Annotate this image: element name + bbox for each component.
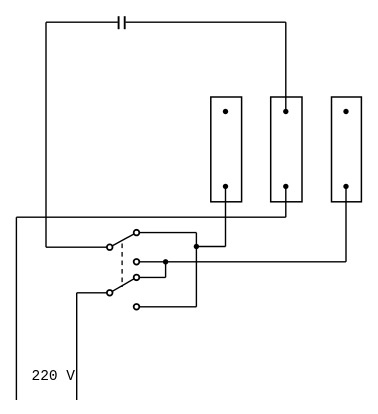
wire bbox=[15, 217, 17, 400]
wire bbox=[126, 21, 286, 23]
wire bbox=[285, 186, 287, 217]
wire bbox=[165, 262, 167, 278]
switch SA1 pole 2 bbox=[107, 275, 139, 310]
wire bbox=[77, 292, 110, 294]
wire bbox=[46, 246, 110, 248]
wire bbox=[137, 232, 197, 234]
capacitor C1 bbox=[119, 16, 125, 29]
wire bbox=[137, 276, 166, 278]
wire bbox=[46, 21, 118, 23]
mechanical link bbox=[121, 244, 123, 288]
wire bbox=[195, 233, 197, 307]
wire bbox=[345, 186, 347, 261]
wire bbox=[16, 216, 285, 218]
junction bbox=[194, 244, 199, 249]
switch SA1 pole 1 bbox=[107, 230, 139, 265]
lamp EL2 bbox=[271, 97, 302, 202]
wire bbox=[45, 22, 47, 247]
wire bbox=[285, 22, 287, 111]
wire bbox=[137, 261, 346, 263]
wire bbox=[196, 246, 225, 248]
junction bbox=[163, 259, 168, 264]
wire bbox=[137, 306, 197, 308]
svg-text:220 V: 220 V bbox=[32, 369, 76, 385]
lamp EL3 bbox=[332, 97, 362, 202]
lamp EL1 bbox=[211, 97, 242, 202]
wire bbox=[225, 186, 227, 246]
wire bbox=[76, 293, 78, 400]
